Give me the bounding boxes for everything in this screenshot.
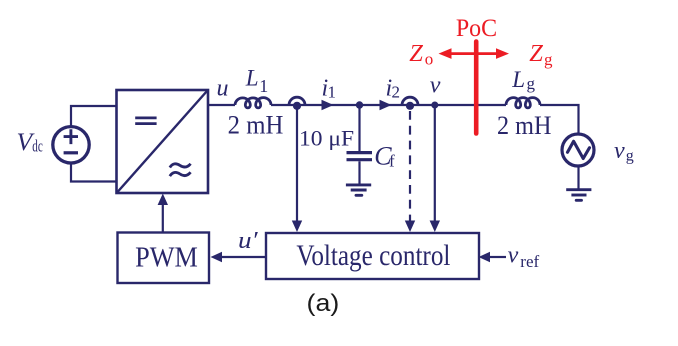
svg-text:2: 2 — [392, 83, 401, 102]
svg-text:10 μF: 10 μF — [299, 125, 354, 150]
svg-text:1: 1 — [259, 76, 268, 96]
svg-text:L: L — [511, 67, 525, 92]
svg-text:Z: Z — [529, 40, 543, 67]
svg-text:v: v — [614, 138, 625, 164]
svg-text:v: v — [430, 73, 441, 99]
svg-text:g: g — [527, 74, 536, 93]
svg-text:ref: ref — [520, 252, 539, 271]
svg-text:o: o — [425, 49, 434, 68]
svg-text:2 mH: 2 mH — [228, 110, 284, 139]
svg-text:v: v — [508, 243, 519, 269]
svg-text:1: 1 — [328, 83, 337, 102]
svg-text:g: g — [626, 147, 634, 164]
svg-text:Voltage control: Voltage control — [296, 240, 450, 272]
svg-text:f: f — [389, 152, 395, 171]
svg-text:L: L — [245, 65, 259, 90]
svg-text:(a): (a) — [307, 290, 340, 317]
svg-text:dc: dc — [32, 136, 43, 155]
svg-text:PoC: PoC — [456, 15, 497, 42]
svg-text:Z: Z — [409, 40, 423, 67]
svg-text:2 mH: 2 mH — [497, 111, 552, 140]
svg-text:g: g — [544, 50, 553, 69]
svg-text:u′: u′ — [238, 228, 258, 254]
svg-text:u: u — [217, 75, 229, 101]
svg-text:PWM: PWM — [135, 242, 198, 273]
